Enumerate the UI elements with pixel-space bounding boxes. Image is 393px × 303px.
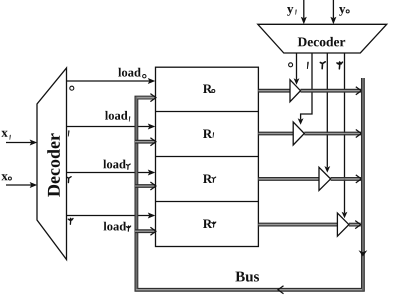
wire load0 — [67, 68, 156, 90]
left decoder (write-select) — [37, 68, 67, 260]
register file block — [156, 67, 259, 246]
wire load2 — [67, 160, 156, 183]
wire R2 output bus — [258, 175, 361, 183]
wire decoder output 2 — [320, 53, 330, 173]
register R1 label — [203, 130, 214, 139]
tri-state buffer B0 — [290, 80, 301, 102]
register R3 label — [203, 220, 216, 229]
wire R1 data input — [135, 138, 156, 146]
wire bus bottom — [135, 78, 364, 291]
wire load1 — [67, 111, 156, 137]
bus direction arrow — [278, 286, 284, 294]
input x0 — [1, 174, 37, 188]
wire load3 — [67, 213, 156, 232]
wire R1 output bus — [258, 130, 361, 138]
input y0 — [330, 0, 349, 24]
input y1 — [287, 0, 307, 24]
wire R3 output bus — [258, 221, 360, 229]
bus down arrow — [359, 250, 368, 256]
wire decoder output 1 — [298, 53, 312, 125]
tri-state buffer B1 — [293, 122, 304, 145]
tri-state buffer B2 — [319, 167, 331, 190]
register R0 label — [203, 85, 215, 94]
wire bus return (left vertical) — [135, 98, 137, 290]
tri-state buffer B3 — [337, 213, 349, 236]
wire R2 data input — [135, 182, 156, 190]
top decoder (read-select) — [258, 24, 387, 53]
wire decoder output 0 — [289, 53, 300, 85]
wire decoder output 3 — [337, 53, 347, 218]
bus label — [235, 272, 259, 282]
input x1 — [1, 131, 37, 146]
bus bar (right vertical) — [362, 78, 364, 290]
wire R0 output bus — [258, 87, 361, 95]
register R2 label — [203, 175, 216, 184]
wire R3 data input — [135, 227, 156, 235]
wire R0 data input — [150, 94, 156, 102]
